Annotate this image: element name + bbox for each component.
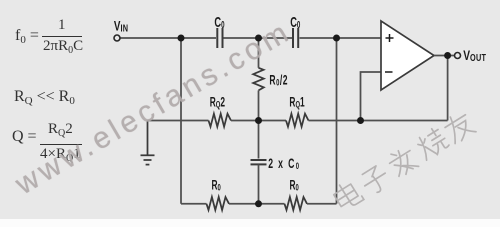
wire: op-amp output to VOUT terminal <box>434 55 455 57</box>
wire: right vertical from top node C to bottom rail <box>336 38 338 204</box>
wire: cap C0#2 to op-amp + input <box>300 37 382 39</box>
node F junction dot (bottom rail center) <box>255 200 262 207</box>
capacitor C0 (second) <box>293 28 298 48</box>
terminal VIN open circle <box>114 35 120 41</box>
hanzi fa <box>386 145 420 179</box>
node B junction dot (between caps) <box>255 35 262 42</box>
wire: feedback from output node down to middle rail <box>447 56 449 121</box>
resistor R0 (bottom left) <box>207 197 230 210</box>
capacitor C0 (first) <box>217 28 222 48</box>
hanzi shao <box>414 126 450 162</box>
wire: top rail VIN to cap C0#1 <box>120 37 216 39</box>
node C junction dot (after second cap) <box>333 35 340 42</box>
op-amp - input sign <box>385 71 393 73</box>
hanzi dian <box>331 178 364 211</box>
wire: middle rail right segment to feedback corner <box>309 120 448 122</box>
node D junction dot (middle rail center) <box>255 117 262 124</box>
white strip at bottom <box>0 219 500 227</box>
formula RQ << R0 <box>14 89 75 105</box>
resistor RQ1 <box>286 114 309 127</box>
resistor RQ2 <box>209 114 232 127</box>
op-amp U1 <box>381 21 434 90</box>
wire: bottom rail middle segment <box>229 203 285 205</box>
wire: RQ2 to RQ1 <box>231 120 286 122</box>
wire: inverting input from feedback node up and right to op-amp <box>361 72 382 121</box>
formula f0 = 1/(2*pi*R0*C) <box>15 28 39 44</box>
ground <box>141 121 155 165</box>
terminal VOUT open circle <box>455 53 461 59</box>
capacitor 2xC0 (vertical chain, horizontal plates) <box>251 160 267 164</box>
wire: 2xC0 to bottom rail <box>258 165 260 204</box>
hanzi you <box>442 110 476 145</box>
resistor R0 (bottom right) <box>285 197 308 210</box>
wire: stub from node B down to R0/2 <box>258 38 260 68</box>
watermark www.elecfans.com <box>10 15 298 202</box>
wire: middle rail left segment (ground corner to RQ2) <box>148 120 209 122</box>
wire: bottom rail right segment <box>307 203 337 205</box>
formula Q = RQ2/(4*RQ1) <box>12 129 37 145</box>
wire: left vertical from node A down to bottom rail <box>180 38 182 204</box>
node E junction dot (feedback / inverting input) <box>357 117 364 124</box>
hanzi zi <box>359 164 392 197</box>
wire: R0/2 to middle rail node <box>258 90 260 158</box>
node G junction dot (output) <box>444 52 451 59</box>
op-amp + input sign <box>386 34 394 42</box>
wire: between caps <box>224 37 293 39</box>
node A junction dot <box>178 35 185 42</box>
resistor R0/2 (vertical) <box>253 68 264 91</box>
wire: bottom rail left segment <box>181 203 207 205</box>
